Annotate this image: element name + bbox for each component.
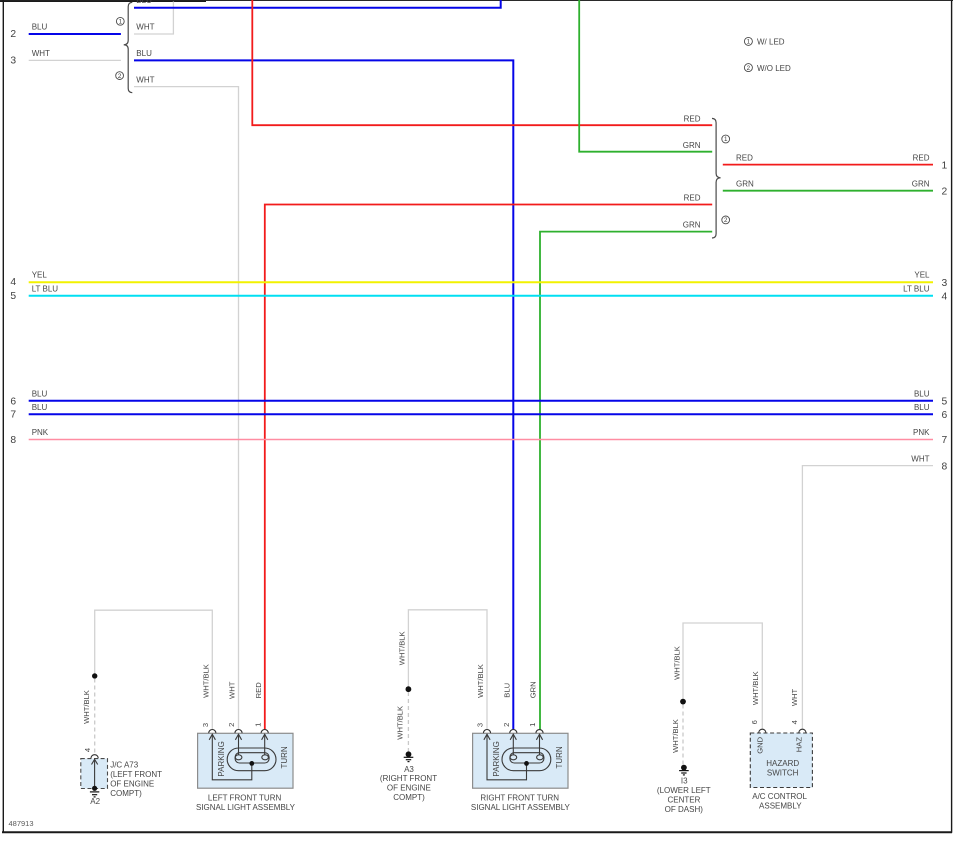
wire PNK xyxy=(29,439,933,441)
svg-text:BLU: BLU xyxy=(503,683,512,698)
circled 1 right marker xyxy=(722,135,730,143)
svg-text:1: 1 xyxy=(724,136,728,143)
svg-text:BLU: BLU xyxy=(136,49,152,58)
bulb filament capsule right lamp xyxy=(510,753,544,763)
svg-text:3: 3 xyxy=(10,55,16,66)
ground A3 dot xyxy=(406,751,412,757)
svg-text:RED: RED xyxy=(684,194,701,203)
wire RED option1 from top xyxy=(252,0,712,125)
svg-text:8: 8 xyxy=(942,461,948,472)
pin 6 arc hazard xyxy=(759,729,766,733)
svg-text:4: 4 xyxy=(83,748,92,752)
svg-text:A/C CONTROL: A/C CONTROL xyxy=(752,792,807,801)
ground A2 bars xyxy=(90,792,99,797)
svg-text:WHT/BLK: WHT/BLK xyxy=(476,664,485,698)
svg-text:4: 4 xyxy=(10,277,16,288)
frame bottom border xyxy=(2,831,952,833)
svg-text:(RIGHT FRONT: (RIGHT FRONT xyxy=(380,774,437,783)
svg-text:3: 3 xyxy=(476,723,485,727)
pin 2 arc right lamp xyxy=(510,729,517,733)
svg-text:WHT: WHT xyxy=(911,454,929,463)
svg-text:WHT/BLK: WHT/BLK xyxy=(751,671,760,705)
svg-text:2: 2 xyxy=(10,29,16,40)
svg-text:7: 7 xyxy=(942,435,948,446)
svg-text:LEFT FRONT TURN: LEFT FRONT TURN xyxy=(208,794,282,803)
svg-text:HAZARD: HAZARD xyxy=(766,759,799,768)
svg-text:2: 2 xyxy=(118,73,122,80)
svg-text:OF ENGINE: OF ENGINE xyxy=(110,779,154,788)
svg-text:4: 4 xyxy=(942,292,948,303)
svg-text:LT BLU: LT BLU xyxy=(903,284,930,293)
bulb outline left lamp xyxy=(227,748,276,771)
svg-text:J/C A73: J/C A73 xyxy=(110,761,139,770)
svg-text:COMPT): COMPT) xyxy=(110,789,142,798)
circled 1 option marker xyxy=(116,17,124,25)
hazard switch box xyxy=(750,733,812,788)
ground I3 bars xyxy=(679,771,689,775)
wire BLU option2 to right lamp pin2 xyxy=(134,60,513,729)
svg-text:GRN: GRN xyxy=(912,179,930,188)
pin 1 arc left lamp xyxy=(261,730,268,734)
junction splice dot A3 branch xyxy=(406,686,412,692)
wire WHT/BLK dashed to J/C A73 xyxy=(94,679,96,754)
svg-text:8: 8 xyxy=(10,435,16,446)
wire BLU option1 xyxy=(134,0,501,8)
bulb filament capsule left lamp xyxy=(235,753,269,763)
svg-text:WHT/BLK: WHT/BLK xyxy=(202,664,211,698)
wire LT BLU xyxy=(29,295,933,297)
svg-text:1: 1 xyxy=(528,723,537,727)
circled 2 option marker xyxy=(116,72,124,80)
svg-text:WHT: WHT xyxy=(790,688,799,706)
frame right border xyxy=(951,0,953,833)
svg-text:RED: RED xyxy=(254,682,263,699)
svg-text:YEL: YEL xyxy=(914,271,930,280)
wire BLU pin2 left xyxy=(29,33,121,35)
svg-text:WHT: WHT xyxy=(228,681,237,699)
svg-text:GND: GND xyxy=(756,736,765,753)
svg-text:2: 2 xyxy=(502,723,511,727)
svg-text:SIGNAL LIGHT ASSEMBLY: SIGNAL LIGHT ASSEMBLY xyxy=(196,803,296,812)
junction splice dot I3 branch xyxy=(680,699,686,705)
svg-text:7: 7 xyxy=(10,410,16,421)
wire pin1 into bulb right lamp xyxy=(539,734,541,755)
legend circled 2 xyxy=(744,64,752,72)
svg-text:BLU: BLU xyxy=(32,390,48,399)
svg-text:WHT: WHT xyxy=(32,49,50,58)
wire BLU row6 xyxy=(29,400,933,402)
legend circled 1 xyxy=(744,37,752,45)
wire WHT/BLK ground run right lamp xyxy=(408,610,487,730)
svg-text:TURN: TURN xyxy=(280,746,289,768)
wire WHT option2 to left lamp pin2 xyxy=(134,87,239,730)
svg-text:PARKING: PARKING xyxy=(217,741,226,776)
brace right merge xyxy=(712,118,721,238)
svg-text:WHT: WHT xyxy=(136,23,154,32)
junction block J/C A73 box xyxy=(81,759,108,789)
svg-text:3: 3 xyxy=(942,278,948,289)
svg-text:BLU: BLU xyxy=(32,403,48,412)
svg-text:BLU: BLU xyxy=(32,23,48,32)
pin 2 arc left lamp xyxy=(235,729,242,733)
svg-text:BLU: BLU xyxy=(914,390,930,399)
frame left border xyxy=(2,0,4,833)
bulb common node dot right lamp xyxy=(524,761,529,766)
svg-text:4: 4 xyxy=(790,720,799,724)
svg-text:2: 2 xyxy=(747,65,751,72)
wire YEL xyxy=(29,281,933,283)
wire pin3 to bulb common left lamp xyxy=(212,734,252,780)
svg-text:LT BLU: LT BLU xyxy=(32,284,59,293)
svg-text:6: 6 xyxy=(942,410,948,421)
svg-text:A3: A3 xyxy=(404,765,414,774)
ground I3 dot xyxy=(681,765,687,771)
svg-text:1: 1 xyxy=(747,39,751,46)
wire WHT/BLK dashed to A3 ground xyxy=(407,692,409,752)
svg-text:TURN: TURN xyxy=(555,746,564,768)
svg-text:A2: A2 xyxy=(90,797,100,806)
svg-text:(LOWER LEFT: (LOWER LEFT xyxy=(657,786,711,795)
svg-text:WHT/BLK: WHT/BLK xyxy=(671,719,680,753)
ground A2 dot xyxy=(92,786,97,791)
svg-text:CENTER: CENTER xyxy=(667,795,700,804)
svg-text:WHT: WHT xyxy=(136,75,154,84)
brace left options xyxy=(124,2,133,92)
left front turn signal light assembly box xyxy=(198,733,293,788)
wire WHT option1 xyxy=(134,2,173,35)
svg-text:6: 6 xyxy=(750,720,759,724)
pin 3 arc right lamp xyxy=(483,729,490,733)
svg-text:GRN: GRN xyxy=(529,681,538,698)
cropped connector bottom edge top-left xyxy=(0,0,206,2)
wire pin2 into bulb left lamp xyxy=(238,734,240,755)
pin 1 arc right lamp xyxy=(536,730,543,734)
wire GRN option1 from top xyxy=(579,0,712,152)
svg-text:WHT/BLK: WHT/BLK xyxy=(396,706,405,740)
svg-text:RED: RED xyxy=(913,153,930,162)
svg-text:1: 1 xyxy=(254,723,263,727)
svg-text:WHT/BLK: WHT/BLK xyxy=(398,631,407,665)
svg-text:WHT/BLK: WHT/BLK xyxy=(82,690,91,724)
svg-text:RIGHT FRONT TURN: RIGHT FRONT TURN xyxy=(480,794,559,803)
wire WHT/BLK ground run left lamp xyxy=(95,610,213,730)
svg-text:5: 5 xyxy=(942,397,948,408)
svg-text:HAZ: HAZ xyxy=(795,737,804,753)
svg-text:OF ENGINE: OF ENGINE xyxy=(387,784,431,793)
circled 2 right marker xyxy=(722,216,730,224)
wire WHT row8 to hazard pin4 xyxy=(802,466,933,730)
svg-text:OF DASH): OF DASH) xyxy=(665,805,704,814)
svg-text:2: 2 xyxy=(724,217,728,224)
junction splice dot A2 branch xyxy=(92,673,97,678)
wire WHT pin3 left xyxy=(29,59,121,61)
ground A3 bars xyxy=(404,757,414,761)
frame top border xyxy=(0,0,953,2)
svg-text:W/ LED: W/ LED xyxy=(757,38,785,47)
wire pin3 to bulb common right lamp xyxy=(487,734,527,780)
filament loop right left lamp xyxy=(262,755,269,760)
wire inside J/C A73 with arrow xyxy=(94,760,96,789)
filament loop right right lamp xyxy=(537,755,544,760)
svg-text:GRN: GRN xyxy=(683,141,701,150)
svg-text:W/O LED: W/O LED xyxy=(757,64,791,73)
right front turn signal light assembly box xyxy=(473,733,568,788)
svg-text:GRN: GRN xyxy=(736,179,754,188)
filament loop left left lamp xyxy=(235,755,242,760)
wire pin1 into bulb left lamp xyxy=(264,734,266,755)
svg-text:PNK: PNK xyxy=(32,428,49,437)
svg-text:WHT/BLK: WHT/BLK xyxy=(673,646,682,680)
pin 3 arc left lamp xyxy=(209,729,216,733)
wire RED combined xyxy=(723,164,933,166)
svg-text:ASSEMBLY: ASSEMBLY xyxy=(759,802,802,811)
wire GRN option2 to right lamp pin1 xyxy=(540,232,712,730)
filament loop left right lamp xyxy=(510,755,517,760)
wire BLU row7 xyxy=(29,413,933,415)
bulb common node dot left lamp xyxy=(249,761,254,766)
svg-text:1: 1 xyxy=(119,19,123,26)
svg-text:BLU: BLU xyxy=(914,403,930,412)
svg-text:RED: RED xyxy=(684,114,701,123)
svg-text:PARKING: PARKING xyxy=(492,741,501,776)
svg-text:GRN: GRN xyxy=(683,221,701,230)
svg-text:2: 2 xyxy=(227,723,236,727)
wire pin2 into bulb right lamp xyxy=(512,734,514,755)
svg-text:3: 3 xyxy=(201,723,210,727)
pin 4 arc hazard xyxy=(799,729,806,733)
svg-text:RED: RED xyxy=(736,153,753,162)
svg-text:(LEFT FRONT: (LEFT FRONT xyxy=(110,770,162,779)
svg-text:I3: I3 xyxy=(681,777,688,786)
svg-text:SWITCH: SWITCH xyxy=(767,769,799,778)
svg-text:YEL: YEL xyxy=(32,271,48,280)
wire RED option2 to left lamp pin1 xyxy=(265,205,712,730)
svg-text:BLU: BLU xyxy=(136,0,152,5)
svg-text:COMPT): COMPT) xyxy=(393,793,425,802)
svg-text:5: 5 xyxy=(10,291,16,302)
svg-text:6: 6 xyxy=(10,396,16,407)
svg-text:2: 2 xyxy=(942,187,948,198)
wire WHT/BLK dashed to I3 ground xyxy=(682,705,684,765)
svg-text:1: 1 xyxy=(942,160,948,171)
svg-text:PNK: PNK xyxy=(913,428,930,437)
bulb outline right lamp xyxy=(502,748,551,771)
svg-text:487913: 487913 xyxy=(9,819,34,828)
svg-text:SIGNAL LIGHT ASSEMBLY: SIGNAL LIGHT ASSEMBLY xyxy=(471,803,571,812)
pin 4 arc J/C A73 xyxy=(91,755,98,759)
wire GRN combined xyxy=(723,190,933,192)
wire WHT/BLK ground run hazard xyxy=(683,623,762,730)
